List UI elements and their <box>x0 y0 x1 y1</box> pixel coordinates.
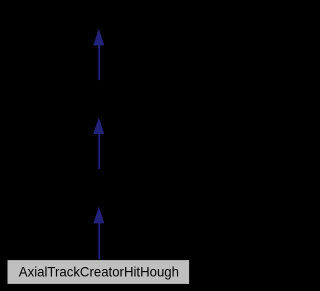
inheritance arrow 1 (topmost) <box>93 29 104 80</box>
inheritance arrow 2 (middle) <box>93 117 104 169</box>
node AxialTrackCreatorHitHough (box) <box>7 260 190 285</box>
inheritance graph: AxialTrackCreatorHitHough <box>0 0 197 291</box>
inheritance arrow 3 (bottom, into node) <box>93 207 104 260</box>
svg-text:AxialTrackCreatorHitHough: AxialTrackCreatorHitHough <box>19 264 179 280</box>
